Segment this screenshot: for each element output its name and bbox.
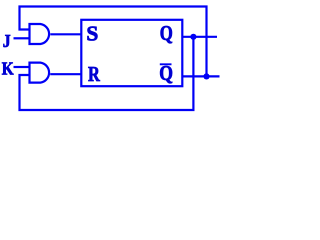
svg-text:S: S (86, 22, 98, 46)
junction dot: Qbar line to V2 (203, 73, 209, 79)
AND gate G1 (J gate) (30, 24, 50, 44)
wire: K input lead (14, 66, 30, 68)
svg-text:Q: Q (159, 63, 173, 86)
wire: Q feedback loop (K-gate lower input stub + left vertical + bottom wire + right vertical V1) (20, 37, 194, 110)
junction dot: Q line to V1 (190, 34, 196, 40)
svg-text:R: R (88, 63, 100, 86)
wire: Q output line (182, 36, 217, 38)
AND gate G2 (K gate) (30, 63, 50, 83)
wire: J input lead (14, 37, 30, 39)
svg-text:K: K (2, 59, 14, 79)
wire: G2 output to R input (50, 73, 81, 75)
wire: G1 output to S input (50, 33, 81, 35)
overbar of Qbar label (160, 63, 172, 65)
wire: Qbar output line (182, 75, 219, 77)
svg-text:J: J (3, 31, 11, 51)
SR latch box U1 (81, 20, 182, 86)
wire: Qbar feedback loop (left vertical + top wire + right vertical V2) (20, 7, 207, 77)
JK flip-flop from SR latch schematic (0, 0, 224, 119)
svg-text:Q: Q (160, 22, 173, 45)
